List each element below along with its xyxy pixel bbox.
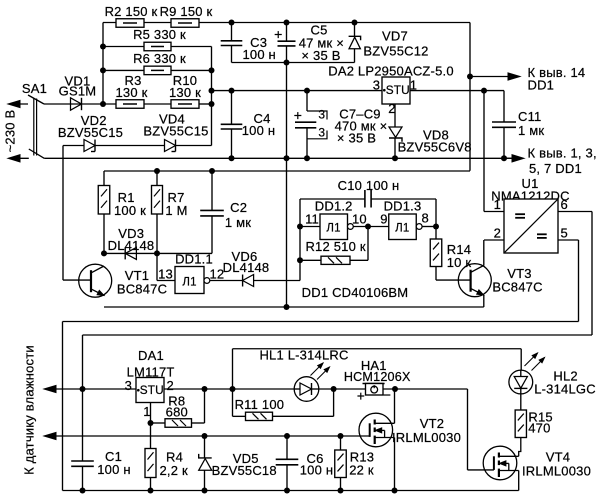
svg-text:Л1: Л1: [326, 223, 340, 235]
svg-text:IRLML0030: IRLML0030: [392, 430, 461, 445]
svg-text:BC847C: BC847C: [492, 280, 542, 295]
svg-text:C10 100 н: C10 100 н: [338, 178, 400, 193]
svg-text:1 мк: 1 мк: [518, 123, 544, 138]
svg-text:Л1: Л1: [182, 276, 196, 288]
svg-text:BZV55C15: BZV55C15: [143, 124, 208, 139]
svg-text:BZV55C15: BZV55C15: [58, 125, 123, 140]
svg-text:HCM1206X: HCM1206X: [344, 370, 411, 384]
svg-text:К датчику влажности: К датчику влажности: [22, 345, 37, 475]
svg-text:R5 330 к: R5 330 к: [133, 27, 186, 42]
svg-text:8: 8: [422, 211, 429, 226]
svg-text:9: 9: [380, 212, 387, 227]
svg-text:HL1 L-314LRC: HL1 L-314LRC: [259, 348, 348, 363]
svg-text:DD1.2: DD1.2: [315, 199, 353, 214]
svg-text:STU: STU: [386, 83, 410, 97]
svg-text:DA1: DA1: [138, 348, 164, 363]
svg-text:C2: C2: [230, 200, 247, 215]
svg-text:GS1M: GS1M: [59, 84, 97, 99]
svg-text:3: 3: [125, 378, 132, 393]
svg-text:1 мк: 1 мк: [225, 215, 251, 230]
svg-text:2: 2: [167, 378, 174, 393]
svg-text:R9 150 к: R9 150 к: [160, 4, 213, 19]
svg-text:100 н: 100 н: [300, 463, 333, 478]
svg-text:13: 13: [158, 267, 173, 282]
svg-text:BC847C: BC847C: [117, 282, 167, 297]
svg-text:+: +: [294, 107, 302, 123]
svg-text:SA1: SA1: [22, 81, 47, 96]
svg-text:22 к: 22 к: [349, 463, 374, 478]
svg-text:1 М: 1 М: [165, 203, 187, 218]
svg-text:Л1: Л1: [395, 223, 409, 235]
svg-text:100 н: 100 н: [97, 462, 130, 477]
svg-text:3: 3: [318, 108, 325, 122]
svg-text:100 к: 100 к: [114, 203, 146, 218]
svg-text:100 н: 100 н: [242, 123, 275, 138]
svg-text:470: 470: [528, 421, 550, 436]
svg-text:2: 2: [494, 226, 501, 241]
svg-text:1: 1: [494, 197, 501, 212]
svg-text:10 к: 10 к: [447, 255, 472, 270]
svg-text:5: 5: [561, 226, 568, 241]
svg-text:R2 150 к: R2 150 к: [105, 4, 158, 19]
svg-text:10: 10: [352, 212, 367, 227]
svg-text:R6 330 к: R6 330 к: [133, 51, 186, 66]
svg-text:STU: STU: [140, 383, 164, 397]
svg-text:К выв. 1, 3,: К выв. 1, 3,: [528, 146, 597, 161]
svg-text:× 35 В: × 35 В: [301, 48, 340, 63]
svg-text:C11: C11: [518, 109, 541, 124]
svg-text:100 н: 100 н: [242, 47, 275, 62]
svg-text:VT4: VT4: [546, 450, 570, 465]
svg-text:IRLML0030: IRLML0030: [522, 464, 591, 479]
svg-text:DL4148: DL4148: [223, 260, 270, 275]
svg-text:DA2 LP2950ACZ-5.0: DA2 LP2950ACZ-5.0: [328, 64, 454, 79]
svg-text:BZV55C6V8: BZV55C6V8: [398, 140, 472, 155]
svg-text:× 35 В: × 35 В: [337, 131, 376, 146]
svg-text:6: 6: [561, 197, 568, 212]
svg-text:R11 100: R11 100: [235, 397, 285, 412]
svg-text:11: 11: [305, 212, 319, 227]
svg-text:1: 1: [143, 404, 150, 419]
svg-text:5, 7 DD1: 5, 7 DD1: [529, 161, 582, 176]
svg-text:+: +: [357, 389, 365, 404]
svg-text:2,2 к: 2,2 к: [160, 463, 188, 478]
svg-text:DD1.1: DD1.1: [175, 252, 213, 267]
svg-text:VT2: VT2: [420, 416, 444, 431]
svg-text:BZV55C12: BZV55C12: [363, 44, 428, 59]
svg-text:130 к: 130 к: [116, 85, 148, 100]
svg-text:680: 680: [166, 405, 188, 420]
svg-text:+: +: [274, 26, 282, 42]
svg-text:BZV55C18: BZV55C18: [212, 463, 277, 478]
svg-text:3: 3: [373, 78, 380, 93]
svg-text:~230 В: ~230 В: [3, 110, 18, 153]
svg-text:DD1: DD1: [528, 78, 555, 93]
svg-text:3: 3: [318, 126, 325, 140]
svg-text:VD7: VD7: [382, 29, 408, 44]
svg-text:R12 510 к: R12 510 к: [305, 239, 365, 254]
svg-text:130 к: 130 к: [169, 85, 201, 100]
svg-text:DD1 CD40106BM: DD1 CD40106BM: [302, 285, 409, 300]
svg-text:DL4148: DL4148: [108, 238, 155, 253]
svg-text:L-314LGC: L-314LGC: [534, 382, 596, 397]
svg-text:−: −: [383, 388, 391, 403]
svg-text:DD1.3: DD1.3: [384, 199, 422, 214]
